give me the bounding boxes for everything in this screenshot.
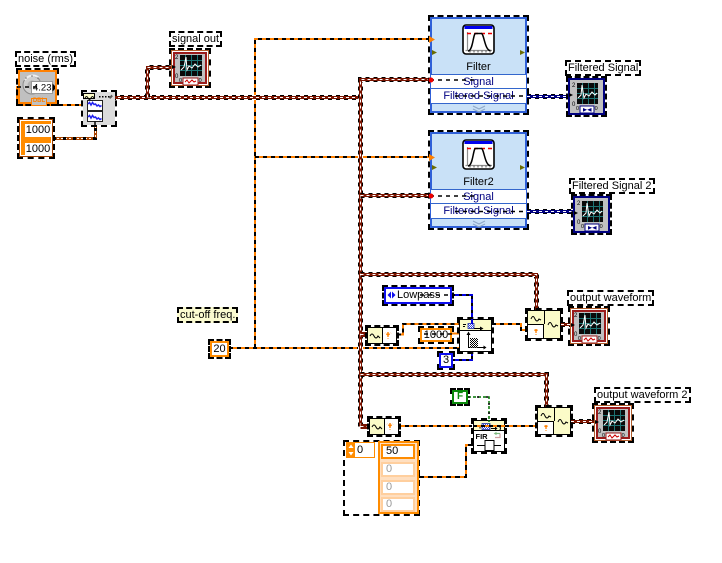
label Filtered Signal: [565, 60, 641, 76]
numeric constant 20: [210, 341, 229, 357]
wire: dynamic data branch to Filter2 Signal input: [361, 195, 430, 197]
wire: array constant to FIR filter coefficients input: [419, 445, 473, 477]
graph indicator: Filtered Signal 2: [573, 196, 610, 233]
enum constant Lowpass: [384, 287, 452, 304]
wire: dynamic data branch to Convert-to-Dynamic B top input: [361, 375, 547, 408]
wire: Lowpass enum to filter design block type input: [452, 295, 472, 319]
node: Filter2 lower cut-off input arrowhead: [429, 154, 435, 161]
wire 20/cutoff net: [229, 39, 459, 348]
label output waveform: [567, 290, 654, 306]
wire: dynamic data vertical trunk x=360 feeding Filter Signal input: [361, 80, 430, 427]
label Filtered Signal 2: [569, 178, 655, 194]
convert from dynamic (bottom): [369, 418, 399, 435]
Filter express VI: [430, 17, 527, 113]
wire: dynamic data, Simulate Signal output main run: [112, 97, 361, 99]
to dynamic A (output waveform): [527, 310, 561, 339]
wire knob to SimulateSignal: [17, 87, 82, 105]
Filter2 express VI: [430, 132, 527, 228]
wire: dynamic data branch up to signal out graph: [148, 68, 173, 98]
wire: dynamic data Convert-to-Dynamic B to output waveform 2 graph: [571, 421, 594, 423]
wire: filter design block output to Convert-to-Dynamic A: [492, 324, 527, 330]
wire: dynamic data branch to Convert-to-Dynamic A top input: [361, 275, 537, 311]
convert from dynamic (mid): [367, 327, 397, 344]
FIR filter block: [473, 420, 505, 452]
array data column: [378, 441, 419, 514]
knob control: [18, 70, 57, 104]
wire: Lowpass wire tail into filter design strip: [471, 319, 473, 324]
Simulate Signal express VI: [83, 92, 115, 125]
wire: Convert-from-Dynamic (mid) output to filter design block signal input: [397, 324, 459, 335]
array constant group: [343, 440, 420, 516]
wire: dynamic data stub into Convert-from-Dynamic (bottom): [361, 426, 371, 428]
filter design block: [459, 319, 492, 352]
wire: boolean wire tail into FIR strip: [488, 420, 490, 424]
wire stub dashes over Filter/Filter2 row texts and constants: [17, 80, 527, 334]
wire: cluster constant 1000/1000 to Simulate Signal bottom input: [53, 125, 96, 139]
wire: Filter Filtered-Signal output to Filtered Signal graph (navy): [527, 96, 569, 98]
graph indicator: Filtered Signal: [568, 78, 605, 115]
wire: Filter2 Filtered-Signal output to Filtered Signal 2 graph (navy): [527, 211, 573, 213]
wire: orange run crossing FIR top strip: [473, 425, 505, 427]
label signal out: [169, 31, 222, 47]
numeric constant 3: [439, 353, 453, 368]
graph indicator: output waveform: [570, 308, 608, 344]
to dynamic B (output waveform 2): [537, 407, 571, 435]
node: Filter lower cut-off input arrowhead: [429, 36, 435, 43]
label cut-off freq.: [177, 307, 238, 323]
wire: FIR filter output to Convert-to-Dynamic B: [505, 425, 537, 427]
wire: boolean constant F to FIR filter init input (green): [468, 397, 489, 420]
label noise (rms): [15, 51, 76, 67]
wire: dynamic data stub into Convert-from-Dynamic (mid): [361, 334, 369, 336]
wire: dynamic data Convert-to-Dynamic A to output waveform graph: [561, 324, 571, 326]
array index box: [346, 442, 375, 458]
graph indicator: output waveform 2: [594, 405, 632, 441]
boolean constant F: [452, 390, 468, 404]
brown dynamic-data wires: [112, 68, 594, 427]
graph indicator: signal out: [171, 50, 209, 86]
wire: constant 1000 to filter design block fs input: [452, 333, 459, 335]
wire: constant 3 to filter design block order input: [452, 352, 472, 360]
wire: Convert-from-Dynamic (bottom) output to FIR filter input: [397, 425, 472, 427]
node: Filter Signal input terminal (red dot): [429, 78, 434, 83]
numeric constant 1000 (mid): [420, 328, 452, 342]
cluster constant 1000/1000: [19, 119, 53, 157]
node: Filter2 Signal input terminal (red dot): [429, 194, 434, 199]
label output waveform 2: [594, 387, 691, 403]
